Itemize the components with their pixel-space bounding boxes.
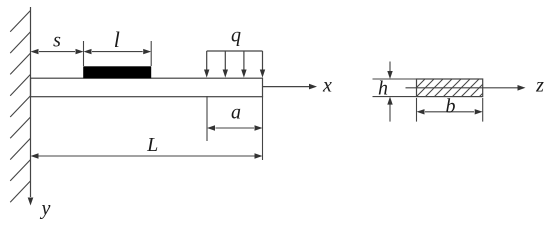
extension line at patch right [150,41,152,66]
wall (fixed support line) [30,7,32,197]
beam [31,78,263,97]
cross-section rectangle (hatched) [417,79,483,97]
y axis [28,198,51,220]
label q [231,25,241,47]
extension line for a (load start) [206,96,208,141]
beam end extension line [262,96,264,160]
dimension l [84,27,152,54]
dimension b [417,95,483,117]
extension line at patch left [83,41,85,66]
wall hatching [10,11,30,203]
svg-text:a: a [231,102,241,124]
b extension line left [416,98,418,122]
distributed load q [207,51,263,71]
svg-text:x: x [322,75,332,97]
section bottom extension line [373,96,417,98]
svg-text:z: z [535,75,544,97]
svg-text:q: q [231,25,241,47]
b extension line right [482,98,484,122]
z axis [406,75,545,97]
dimension L [31,134,263,159]
x axis [263,75,333,97]
svg-text:y: y [40,198,51,220]
dimension a [207,102,263,131]
dimension s [31,30,84,55]
svg-text:l: l [114,27,120,52]
loaded patch (solid black block on beam) [83,66,151,78]
dimension h [378,62,393,122]
svg-text:h: h [378,78,388,100]
svg-text:s: s [53,30,61,52]
svg-text:L: L [146,134,158,156]
svg-text:b: b [446,95,456,117]
section top extension line [373,78,417,80]
